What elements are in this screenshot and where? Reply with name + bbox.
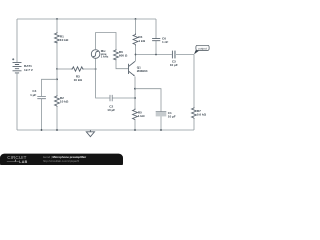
node C1 branch <box>134 88 136 90</box>
svg-text:1 kΩ: 1 kΩ <box>138 39 145 43</box>
wire top rail <box>17 18 156 20</box>
svg-text:10 µF: 10 µF <box>168 115 176 119</box>
wire R1 top <box>56 19 58 33</box>
resistor R3 <box>71 67 84 82</box>
svg-text:1 µF: 1 µF <box>30 93 36 97</box>
wire emitter column <box>134 77 136 109</box>
svg-text:1 kΩ: 1 kΩ <box>138 114 145 118</box>
capacitor C6 <box>152 36 168 44</box>
wire battery top <box>16 19 18 62</box>
wire R1 bottom to node A <box>56 43 58 69</box>
resistor R7 <box>192 107 207 119</box>
wire C4 branch <box>42 79 58 96</box>
capacitor C4 <box>30 89 46 99</box>
wire node A down to R2 <box>56 69 58 95</box>
capacitor C3 <box>170 51 178 68</box>
svg-text:LAB: LAB <box>19 160 27 164</box>
svg-text:10 kΩ: 10 kΩ <box>60 100 69 104</box>
capacitor C2 <box>107 95 115 112</box>
watermark bar <box>0 154 123 168</box>
wire R3 to source node <box>84 68 96 70</box>
node R4 top <box>135 18 137 20</box>
source Mic (sine voltage source) <box>91 49 109 58</box>
node C2 branch <box>134 97 136 99</box>
svg-text:12.7 V: 12.7 V <box>24 68 34 72</box>
svg-text:10 kΩ: 10 kΩ <box>74 78 83 82</box>
svg-text:600 Ω: 600 Ω <box>119 54 128 58</box>
node C4 ground <box>41 129 43 131</box>
node C6 bottom <box>155 54 157 56</box>
node R5 ground <box>134 129 136 131</box>
wire R7 bottom <box>193 119 195 130</box>
svg-text:1 kHz: 1 kHz <box>101 55 109 59</box>
wire collector output run <box>136 54 172 56</box>
node C1 ground <box>160 129 162 131</box>
resistor R4 <box>133 34 146 46</box>
wire C1 branch <box>135 89 161 112</box>
wire R6 to base <box>116 59 128 69</box>
resistor R6 <box>114 49 128 60</box>
wire source top loop <box>96 33 116 50</box>
node junction R1 top <box>56 18 58 20</box>
node output flag <box>194 45 209 54</box>
node C4 tee <box>56 78 58 80</box>
wire C2 left to source node <box>96 69 110 98</box>
wire bottom ground rail <box>17 129 194 131</box>
wire node A to R3 <box>57 68 71 70</box>
svg-text:2N3904: 2N3904 <box>137 69 148 73</box>
svg-text:10 µF: 10 µF <box>107 108 115 112</box>
capacitor C1 <box>156 111 176 119</box>
node source bottom <box>95 68 97 70</box>
svg-text:10 kΩ: 10 kΩ <box>60 38 69 42</box>
node A <box>56 68 58 70</box>
wire R2 bottom <box>56 107 58 130</box>
wire C3 to output corner <box>176 54 194 56</box>
transistor Q1 <box>129 61 148 76</box>
wire C4 bottom <box>41 99 43 130</box>
ground <box>86 130 94 137</box>
wire C1 bottom <box>160 116 162 130</box>
wire C2 branch right <box>112 97 135 99</box>
wire battery bottom <box>16 73 18 130</box>
wire R4 top <box>135 19 137 34</box>
battery BAT1 <box>12 58 34 73</box>
resistor R1 <box>55 32 69 43</box>
node R2 ground <box>56 129 58 131</box>
wire R5 bottom <box>134 120 136 130</box>
resistor R2 <box>55 95 69 107</box>
resistor R5 <box>133 109 146 121</box>
wire C6 column <box>155 19 157 55</box>
svg-text:5.6 kΩ: 5.6 kΩ <box>197 113 207 117</box>
wire R4 bottom to collector <box>135 46 137 62</box>
svg-text:10 µF: 10 µF <box>170 63 178 67</box>
wire source bottom <box>95 58 97 69</box>
node collector <box>135 54 137 56</box>
svg-text:http://circuitlab.com/c/pkpac5: http://circuitlab.com/c/pkpac5 <box>43 159 80 163</box>
wire output down to R7 <box>193 55 195 108</box>
svg-text:1 nF: 1 nF <box>162 40 168 44</box>
svg-text:output: output <box>198 46 207 50</box>
